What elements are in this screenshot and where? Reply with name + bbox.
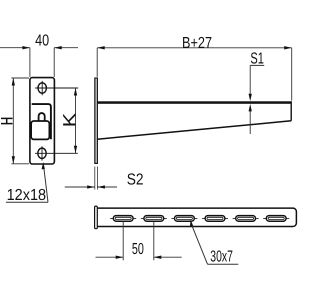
extension lines H [11, 77, 29, 79]
dim line K with arrows [75, 88, 77, 153]
svg-text:30x7: 30x7 [210, 248, 233, 265]
arm tapered bottom edge [97, 121, 291, 139]
extension line left (plate) [96, 48, 98, 77]
dim line 40 left with arrow [0, 47, 30, 49]
dim line B+27 with arrows [97, 47, 292, 49]
bottom hole centerlines (horizontal doubles as K extension) [35, 152, 78, 154]
arm top flange (S1) [97, 101, 291, 104]
svg-text:50: 50 [132, 241, 144, 258]
top hole 12x18 [38, 83, 46, 93]
arm bar outline [97, 208, 296, 226]
dim line S2 left with arrow [65, 186, 95, 188]
extension lines 50 (slot centers) [122, 222, 124, 261]
svg-text:S2: S2 [127, 172, 144, 189]
bottom hole 12x18 [38, 148, 46, 158]
dim line S2 right with arrow [97, 186, 117, 188]
svg-text:40: 40 [35, 33, 49, 50]
wall plate side (two edges) [94, 78, 96, 165]
dim line H with arrows [12, 78, 14, 164]
extension line right (arm tip) [291, 48, 293, 101]
plate end cap [95, 206, 98, 229]
slots 30x7 [110, 216, 289, 222]
svg-text:12x18: 12x18 [7, 187, 47, 204]
wall plate outline [30, 78, 55, 164]
dim line 50 left with arrow [96, 256, 124, 258]
profile section: top flange + right web [32, 104, 51, 139]
profile section: slot dome [39, 113, 45, 121]
extension lines 40 [29, 48, 31, 77]
svg-text:B+27: B+27 [182, 35, 212, 52]
svg-text:K: K [60, 113, 80, 128]
label H (rotated, drawn as strokes) [1, 117, 13, 119]
top hole centerlines (horizontal doubles as K extension) [35, 87, 78, 89]
arm tip [290, 101, 292, 121]
extension lines S2 (plate thickness) [94, 167, 96, 190]
profile section: inner square [31, 121, 49, 139]
dim line 50 right with arrow [154, 256, 182, 258]
dim line 40 right with arrow [54, 47, 78, 49]
